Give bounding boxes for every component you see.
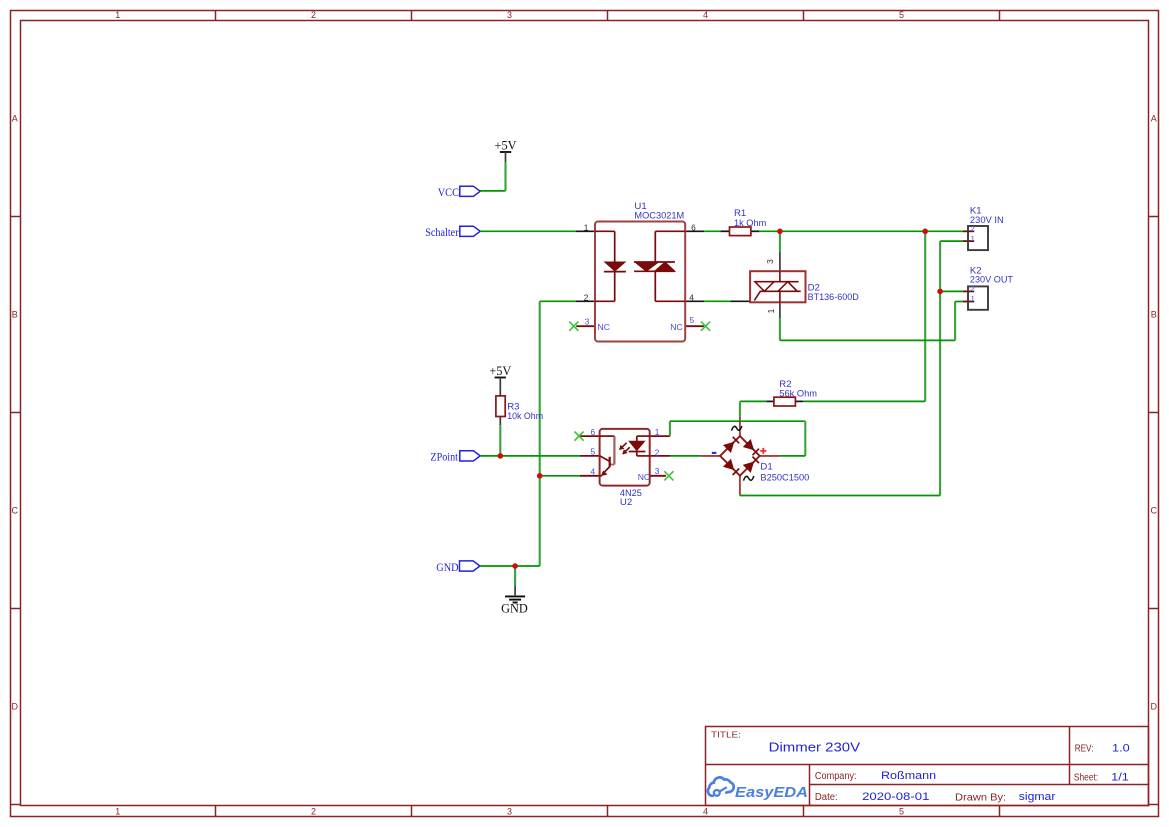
- svg-text:B: B: [12, 309, 18, 319]
- svg-text:2: 2: [311, 10, 316, 20]
- svg-text:230V OUT: 230V OUT: [970, 275, 1013, 286]
- svg-text:3: 3: [507, 10, 512, 20]
- svg-text:Schalter: Schalter: [425, 225, 458, 239]
- svg-text:+5V: +5V: [495, 138, 517, 152]
- svg-text:1: 1: [971, 234, 975, 243]
- svg-text:3: 3: [765, 259, 775, 264]
- svg-text:ZPoint: ZPoint: [430, 450, 458, 464]
- svg-text:3: 3: [585, 316, 590, 326]
- svg-text:1: 1: [115, 10, 120, 20]
- svg-text:C: C: [12, 505, 19, 515]
- svg-text:1: 1: [584, 222, 589, 232]
- svg-text:NC: NC: [638, 472, 650, 482]
- svg-text:1: 1: [971, 294, 975, 303]
- svg-text:5: 5: [590, 446, 595, 456]
- svg-text:5: 5: [689, 315, 694, 325]
- svg-text:A: A: [1151, 113, 1157, 123]
- svg-text:10k Ohm: 10k Ohm: [507, 411, 543, 422]
- svg-text:3: 3: [655, 466, 660, 476]
- svg-text:Roßmann: Roßmann: [881, 770, 936, 782]
- svg-text:BT136-600D: BT136-600D: [808, 292, 859, 303]
- svg-text:D: D: [12, 701, 19, 711]
- svg-text:1: 1: [766, 308, 776, 313]
- svg-text:3: 3: [507, 807, 512, 817]
- svg-text:4: 4: [689, 292, 694, 302]
- svg-text:5: 5: [899, 807, 904, 817]
- svg-text:6: 6: [590, 427, 595, 437]
- svg-text:4: 4: [703, 10, 708, 20]
- svg-text:EasyEDA: EasyEDA: [735, 784, 808, 801]
- svg-text:Sheet:: Sheet:: [1074, 772, 1098, 783]
- svg-text:2020-08-01: 2020-08-01: [862, 791, 929, 803]
- svg-text:Dimmer 230V: Dimmer 230V: [769, 741, 861, 755]
- svg-text:Company:: Company:: [815, 771, 857, 782]
- svg-text:1: 1: [655, 427, 660, 437]
- svg-text:B250C1500: B250C1500: [760, 472, 809, 483]
- svg-text:Date:: Date:: [815, 792, 838, 803]
- svg-text:2: 2: [584, 292, 589, 302]
- svg-text:NC: NC: [598, 322, 610, 332]
- svg-text:B: B: [1151, 309, 1157, 319]
- svg-text:A: A: [12, 113, 18, 123]
- svg-text:U2: U2: [620, 497, 632, 508]
- svg-text:REV:: REV:: [1075, 744, 1094, 755]
- svg-text:sigmar: sigmar: [1019, 791, 1056, 803]
- svg-text:230V IN: 230V IN: [970, 215, 1004, 226]
- svg-text:MOC3021M: MOC3021M: [634, 210, 684, 221]
- svg-text:2: 2: [311, 807, 316, 817]
- svg-text:56k Ohm: 56k Ohm: [779, 389, 817, 400]
- svg-text:Drawn By:: Drawn By:: [955, 793, 1006, 804]
- svg-text:D: D: [1151, 701, 1158, 711]
- svg-text:GND: GND: [501, 601, 528, 615]
- svg-text:5: 5: [899, 10, 904, 20]
- svg-text:4: 4: [590, 466, 595, 476]
- svg-text:1/1: 1/1: [1111, 771, 1129, 783]
- svg-text:NC: NC: [670, 322, 682, 332]
- svg-text:TITLE:: TITLE:: [711, 730, 741, 740]
- svg-text:VCC: VCC: [438, 185, 459, 199]
- svg-text:2: 2: [655, 447, 660, 457]
- svg-text:D1: D1: [760, 461, 772, 472]
- svg-text:6: 6: [691, 222, 696, 232]
- svg-text:GND: GND: [436, 560, 459, 574]
- svg-text:C: C: [1151, 505, 1158, 515]
- svg-text:1k Ohm: 1k Ohm: [734, 218, 766, 229]
- svg-text:1.0: 1.0: [1112, 743, 1130, 755]
- svg-text:1: 1: [115, 807, 120, 817]
- svg-text:4: 4: [703, 807, 708, 817]
- svg-text:+5V: +5V: [489, 364, 511, 378]
